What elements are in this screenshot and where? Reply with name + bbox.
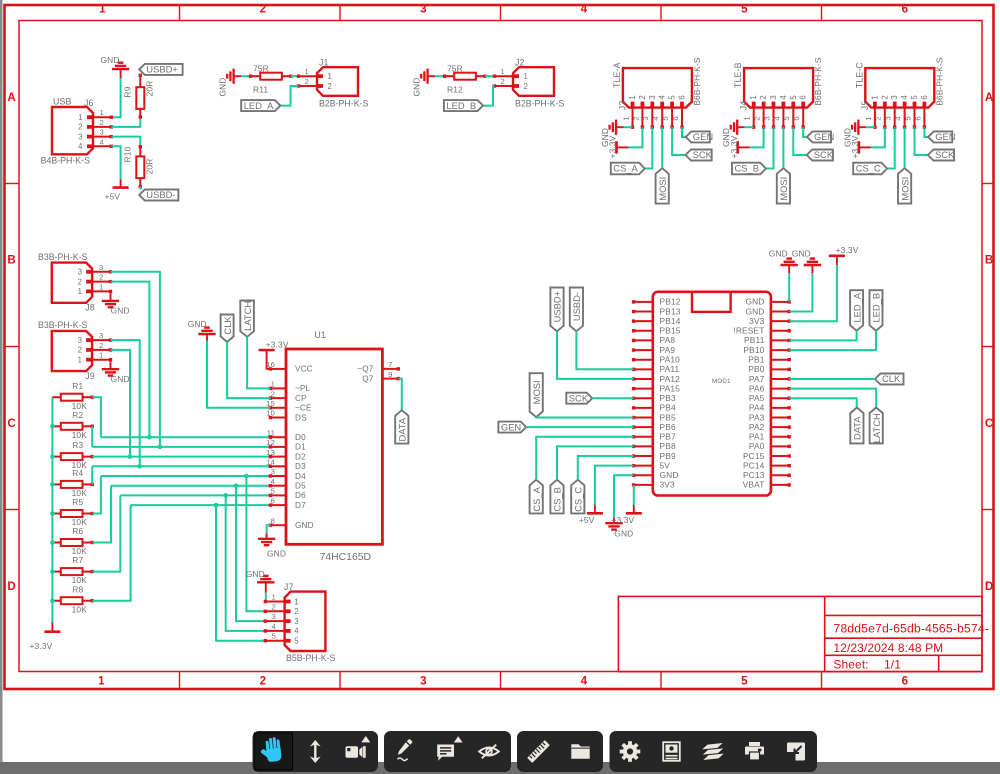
svg-text:6: 6 xyxy=(678,95,687,99)
wire R6 to D5 xyxy=(92,486,111,543)
canvas grey left edge xyxy=(0,0,3,762)
svg-text:10K: 10K xyxy=(72,430,88,440)
+3.3V bus wire xyxy=(51,397,53,622)
net label SCK (J3) xyxy=(686,150,712,161)
junction R2 bus xyxy=(50,424,55,429)
net label USBD- xyxy=(139,190,178,201)
svg-text:VBAT: VBAT xyxy=(743,480,765,490)
wire PA5 to DATA xyxy=(789,398,857,407)
MOD1 left pin PB3 xyxy=(634,397,653,399)
toolbar icon board setup xyxy=(663,742,680,761)
svg-text:6: 6 xyxy=(799,95,808,99)
svg-text:4: 4 xyxy=(651,116,660,121)
wire R12 to J2 pin1 xyxy=(485,75,495,77)
MOD1 right pin !RESET xyxy=(771,330,789,332)
svg-text:1: 1 xyxy=(870,95,879,99)
svg-text:SCK: SCK xyxy=(814,149,834,160)
J5 pin 2 xyxy=(884,108,886,128)
wire GND to J3 pin1 xyxy=(624,126,633,128)
svg-text:LED_A: LED_A xyxy=(244,100,274,111)
junction J8p3/D1 xyxy=(158,445,163,450)
J8 pin 2 xyxy=(92,281,110,283)
connector J9 xyxy=(52,331,92,371)
MOD1 right pin PC15 xyxy=(771,455,789,457)
wire J4 pin4 to MOSI xyxy=(782,127,784,168)
svg-text:5: 5 xyxy=(661,116,670,120)
wire CS_A to PB7 xyxy=(536,437,633,480)
svg-text:R1: R1 xyxy=(72,381,83,391)
svg-text:PB1: PB1 xyxy=(748,354,764,364)
J4 pin 6 xyxy=(802,108,804,128)
svg-text:SCK: SCK xyxy=(693,149,713,160)
J5 pin 4 xyxy=(904,108,906,128)
svg-text:CS_A: CS_A xyxy=(613,163,638,174)
svg-text:CLK: CLK xyxy=(222,316,233,335)
svg-text:A: A xyxy=(7,92,15,104)
net label USBD+ xyxy=(139,64,182,75)
toolbar group measure/files xyxy=(517,731,603,772)
MOD1 right pin PB10 xyxy=(771,349,789,351)
svg-text:7: 7 xyxy=(388,360,392,369)
svg-text:1: 1 xyxy=(501,67,505,76)
svg-text:Sheet:: Sheet: xyxy=(833,657,868,671)
svg-text:3: 3 xyxy=(272,612,276,621)
svg-text:!RESET: !RESET xyxy=(733,326,764,336)
svg-text:J2: J2 xyxy=(515,57,525,67)
svg-text:PB15: PB15 xyxy=(660,326,681,336)
svg-text:LED_A: LED_A xyxy=(851,292,862,322)
junction R6 bus xyxy=(50,540,55,545)
svg-text:1: 1 xyxy=(749,95,758,99)
MOD1 left pin PA11 xyxy=(634,368,653,370)
svg-text:4: 4 xyxy=(900,95,909,100)
svg-text:1: 1 xyxy=(98,676,105,688)
svg-text:2: 2 xyxy=(880,95,889,99)
svg-text:75R: 75R xyxy=(253,64,269,74)
junction J9p3/D3 xyxy=(137,464,142,469)
svg-text:4: 4 xyxy=(100,137,105,146)
power +5V (USB) xyxy=(120,179,122,187)
svg-text:1: 1 xyxy=(99,282,103,291)
toolbar group pan/zoom xyxy=(253,731,379,772)
svg-text:CS_A: CS_A xyxy=(531,486,542,511)
svg-text:11: 11 xyxy=(267,428,275,437)
svg-text:C: C xyxy=(7,418,15,430)
J3 pin 1 xyxy=(632,108,634,128)
wire MOSI to PB5 xyxy=(536,416,633,418)
svg-text:5: 5 xyxy=(789,95,798,100)
svg-text:R10: R10 xyxy=(122,146,132,162)
svg-text:5V: 5V xyxy=(660,460,671,470)
wire GND to J4 pin1 xyxy=(745,126,754,128)
U1 pin 3 D4 xyxy=(270,475,286,477)
connector J7 xyxy=(285,592,326,651)
wire GND1 to MOD1 GND xyxy=(788,273,790,302)
U1 pin 7 ~Q7 xyxy=(382,368,398,370)
wire D2 xyxy=(92,456,270,458)
wire J9 pin2 to D2 xyxy=(111,350,131,457)
wire +3.3V to MOD1 3V3 xyxy=(789,265,837,321)
svg-text:Q7: Q7 xyxy=(362,374,374,383)
MOD1 right pin PA4 xyxy=(771,407,789,409)
ground symbol (J1) xyxy=(232,69,234,84)
wire D5 xyxy=(111,485,270,487)
ground symbol (J9) xyxy=(102,368,119,370)
svg-text:1: 1 xyxy=(99,351,103,360)
U1 pin 6 D7 xyxy=(270,504,286,506)
svg-text:9: 9 xyxy=(388,370,392,379)
svg-text:4: 4 xyxy=(581,4,588,16)
wire J5 pin3 to CS_C xyxy=(887,127,895,168)
svg-text:R12: R12 xyxy=(447,85,463,95)
ground symbol (MOD1 right 1) xyxy=(781,264,798,266)
svg-text:TLE-B: TLE-B xyxy=(733,62,743,88)
wire J8 pin1 to GND xyxy=(110,291,112,301)
svg-text:LATCH: LATCH xyxy=(242,301,253,331)
svg-text:6: 6 xyxy=(902,4,908,16)
svg-text:CLK: CLK xyxy=(882,373,901,384)
svg-text:PA2: PA2 xyxy=(749,422,765,432)
J4 pin 4 xyxy=(782,108,784,128)
svg-text:J7: J7 xyxy=(284,582,294,592)
svg-text:3: 3 xyxy=(78,336,82,345)
svg-text:GND: GND xyxy=(111,306,130,316)
svg-text:1: 1 xyxy=(305,67,309,76)
svg-text:12: 12 xyxy=(266,438,275,447)
svg-text:4: 4 xyxy=(894,116,903,121)
junction R7 bus xyxy=(50,569,55,574)
svg-text:PA7: PA7 xyxy=(749,374,765,384)
svg-text:6: 6 xyxy=(920,95,929,99)
U1 pin 10 DS xyxy=(270,417,286,419)
J3 pin 5 xyxy=(671,108,673,128)
svg-text:D2: D2 xyxy=(295,452,306,461)
net label CS_C (MOD1) xyxy=(571,480,584,514)
svg-text:2: 2 xyxy=(99,341,103,350)
svg-text:J1: J1 xyxy=(319,57,329,67)
junction D6/J7 xyxy=(223,493,228,498)
MOD1 right pin PA7 xyxy=(771,378,789,380)
wire GND pin to ground (MOD1) xyxy=(614,475,634,517)
svg-text:USBD-: USBD- xyxy=(146,189,175,200)
svg-text:+3.3V: +3.3V xyxy=(729,135,739,158)
svg-text:2: 2 xyxy=(271,389,275,398)
J4 pin 3 xyxy=(773,108,775,128)
svg-text:PA6: PA6 xyxy=(749,383,765,393)
svg-text:R11: R11 xyxy=(253,85,268,95)
net label GEN (J3) xyxy=(686,131,710,142)
svg-text:3: 3 xyxy=(641,116,650,120)
J4 pin 2 xyxy=(763,108,765,128)
junction R8 bus xyxy=(50,598,55,603)
svg-text:MOSI: MOSI xyxy=(778,177,789,201)
J4 pin 1 xyxy=(753,108,755,128)
svg-text:6: 6 xyxy=(902,676,908,688)
J4 pin 5 xyxy=(792,108,794,128)
svg-text:B: B xyxy=(985,255,993,267)
svg-text:TLE-A: TLE-A xyxy=(612,62,622,88)
wire R1 to D0 xyxy=(92,397,101,437)
power +5V (MOD1) xyxy=(594,505,596,513)
wire +3.3V to J5 pin2 xyxy=(871,127,885,147)
svg-text:2: 2 xyxy=(631,116,640,120)
net label DATA (U1) xyxy=(395,410,408,443)
svg-text:VCC: VCC xyxy=(295,365,313,374)
svg-text:14: 14 xyxy=(266,458,275,467)
ground symbol (J3) xyxy=(615,120,617,135)
resistor R4 10K xyxy=(52,483,60,485)
J9 pin 3 xyxy=(92,339,110,341)
svg-text:USB: USB xyxy=(53,96,72,106)
svg-text:LATCH: LATCH xyxy=(871,413,882,443)
svg-text:PB6: PB6 xyxy=(660,422,676,432)
J1 pin 2 xyxy=(299,85,318,87)
svg-text:GEN: GEN xyxy=(693,131,713,142)
svg-text:5: 5 xyxy=(272,632,276,641)
svg-text:USBD+: USBD+ xyxy=(552,290,563,322)
svg-text:SCK: SCK xyxy=(935,149,955,160)
J8 pin 1 xyxy=(92,290,110,292)
svg-text:PC15: PC15 xyxy=(743,451,765,461)
toolbar icon layers xyxy=(702,743,724,760)
wire J3 pin3 to CS_A xyxy=(645,127,653,168)
wire J5 pin5 to SCK xyxy=(915,127,928,155)
resistor R6 10K xyxy=(52,542,60,544)
svg-text:GND: GND xyxy=(295,521,314,530)
wire GND to R11 xyxy=(241,75,250,77)
svg-text:GND: GND xyxy=(614,529,633,539)
svg-text:PB4: PB4 xyxy=(660,403,676,413)
U1 pin 16 VCC xyxy=(270,368,286,370)
svg-text:2: 2 xyxy=(638,95,647,99)
svg-text:4: 4 xyxy=(779,95,788,100)
J3 pin 3 xyxy=(651,108,653,128)
svg-text:MOD1: MOD1 xyxy=(712,378,731,385)
toolbar icon signature pencil xyxy=(398,739,413,761)
wire J5 pin4 to MOSI xyxy=(904,127,906,168)
svg-text:R6: R6 xyxy=(72,526,83,536)
wire J4 pin3 to CS_B xyxy=(766,127,774,168)
wire USBD+ to PA12 xyxy=(557,331,634,379)
svg-text:4: 4 xyxy=(658,95,667,100)
net label DATA (MOD1) xyxy=(850,408,863,444)
svg-text:MOSI: MOSI xyxy=(899,177,910,201)
svg-text:CS_C: CS_C xyxy=(856,163,881,174)
J3 pin 4 xyxy=(661,108,663,128)
svg-text:3V3: 3V3 xyxy=(660,480,676,490)
svg-text:PB12: PB12 xyxy=(660,297,681,307)
svg-text:J6: J6 xyxy=(84,98,94,108)
wire CS_B to PB8 xyxy=(557,446,634,479)
svg-text:1: 1 xyxy=(743,116,752,120)
net label CS_A (MOD1) xyxy=(530,480,543,514)
net label USBD+ (MOD1) xyxy=(550,288,563,332)
connector J2 xyxy=(513,67,554,96)
svg-text:2: 2 xyxy=(874,116,883,120)
svg-text:4: 4 xyxy=(581,676,588,688)
J7 pin 3 xyxy=(265,620,284,622)
svg-text:2: 2 xyxy=(78,277,82,286)
svg-text:DATA: DATA xyxy=(397,417,408,441)
svg-text:DS: DS xyxy=(295,413,307,422)
wire GEN to PB6 xyxy=(526,426,633,428)
svg-text:5: 5 xyxy=(668,95,677,100)
svg-text:R3: R3 xyxy=(72,440,83,450)
svg-text:2: 2 xyxy=(501,77,505,86)
svg-text:2: 2 xyxy=(260,4,266,16)
svg-text:J8: J8 xyxy=(85,303,95,313)
svg-text:2: 2 xyxy=(328,82,332,91)
ground symbol (J4) xyxy=(736,120,738,135)
wire LED_A to PB11 xyxy=(789,331,856,341)
svg-text:J4: J4 xyxy=(739,101,749,111)
resistor R9 xyxy=(139,75,141,87)
resistor R10 xyxy=(139,147,141,157)
J1 pin 1 xyxy=(299,75,318,77)
svg-text:3: 3 xyxy=(78,268,82,277)
svg-text:3: 3 xyxy=(769,95,778,99)
svg-text:3: 3 xyxy=(99,331,103,340)
svg-text:2: 2 xyxy=(78,123,82,132)
J5 pin 6 xyxy=(923,108,925,128)
net label LED_B (MOD1) xyxy=(870,290,883,331)
svg-text:2: 2 xyxy=(78,346,82,355)
svg-text:GND: GND xyxy=(411,77,421,96)
svg-text:8: 8 xyxy=(271,516,275,525)
svg-text:2: 2 xyxy=(260,676,266,688)
junction R5 bus xyxy=(50,511,55,516)
MOD1 left pin PB4 xyxy=(634,407,653,409)
svg-text:1: 1 xyxy=(864,116,873,120)
svg-text:GEN: GEN xyxy=(935,131,955,142)
J5 pin 3 xyxy=(894,108,896,128)
net label MOSI (J5) xyxy=(898,168,911,203)
net label GEN (J4) xyxy=(807,131,831,142)
svg-text:+3.3V: +3.3V xyxy=(608,135,618,158)
wire +3.3V to J4 pin2 xyxy=(750,127,764,147)
svg-text:6: 6 xyxy=(671,116,680,120)
svg-text:B4B-PH-K-S: B4B-PH-K-S xyxy=(41,155,91,165)
MOD1 right pin PC13 xyxy=(771,474,789,476)
J6 pin 2 xyxy=(93,126,111,128)
resistor R1 10K xyxy=(52,396,60,398)
wire +3.3V to J3 pin2 xyxy=(629,127,643,147)
svg-text:D: D xyxy=(7,581,15,593)
svg-text:SCK: SCK xyxy=(569,392,589,403)
svg-text:4: 4 xyxy=(294,627,299,636)
wire D5 to J7 pin3 xyxy=(236,486,265,621)
svg-text:D5: D5 xyxy=(295,482,306,491)
resistor R8 10K xyxy=(52,600,60,602)
svg-text:R5: R5 xyxy=(72,497,83,507)
svg-text:5: 5 xyxy=(271,487,275,496)
U1 pin 8 GND xyxy=(270,524,286,526)
svg-text:PA15: PA15 xyxy=(660,383,681,393)
J9 pin 1 xyxy=(92,359,110,361)
J8 pin 3 xyxy=(92,271,110,273)
title block divider xyxy=(824,596,826,671)
svg-text:1/1: 1/1 xyxy=(884,657,901,671)
svg-text:PB5: PB5 xyxy=(660,412,676,422)
svg-text:B2B-PH-K-S: B2B-PH-K-S xyxy=(319,99,369,109)
svg-text:+3.3V: +3.3V xyxy=(611,515,634,525)
svg-text:PA0: PA0 xyxy=(749,441,765,451)
svg-text:CS_C: CS_C xyxy=(573,487,584,512)
junction D4/J7 xyxy=(244,474,249,479)
svg-text:20R: 20R xyxy=(144,159,154,175)
svg-text:1: 1 xyxy=(78,356,82,365)
wire USBD- to PA11 xyxy=(576,331,633,369)
wire J9 pin3 to D3 xyxy=(111,340,140,466)
net label USBD- (MOD1) xyxy=(570,288,583,332)
svg-text:USBD+: USBD+ xyxy=(146,64,178,75)
wire D4 to J7 pin2 xyxy=(246,476,265,611)
MOD1 right pin PB11 xyxy=(771,339,789,341)
ground symbol (MOD1 bottom) xyxy=(613,518,615,524)
svg-text:PA10: PA10 xyxy=(660,354,681,364)
svg-text:+5V: +5V xyxy=(105,192,121,202)
power +3.3V (J3) xyxy=(615,141,618,153)
svg-text:GND: GND xyxy=(745,297,764,307)
svg-text:R4: R4 xyxy=(72,468,83,478)
svg-text:GND: GND xyxy=(745,306,764,316)
wire R8 to D7 xyxy=(92,505,130,601)
J2 pin 2 xyxy=(495,85,514,87)
wire J6 pin3 to R10 xyxy=(111,137,140,147)
svg-text:+3.3V: +3.3V xyxy=(266,340,289,350)
svg-text:USBD-: USBD- xyxy=(571,292,582,321)
net label CLK (MOD1) xyxy=(875,374,904,385)
MOD1 left pin PB14 xyxy=(634,320,653,322)
svg-text:5: 5 xyxy=(741,4,748,16)
resistor R2 10K xyxy=(52,425,60,427)
wire J1 pin2 to LED_A xyxy=(280,86,298,106)
svg-text:GND: GND xyxy=(267,548,286,558)
svg-text:~CE: ~CE xyxy=(295,404,312,413)
svg-text:1: 1 xyxy=(272,593,276,602)
svg-text:78dd5e7d-65db-4565-b574-: 78dd5e7d-65db-4565-b574- xyxy=(833,622,989,636)
toolbar icon camera xyxy=(346,736,371,758)
U1 pin 12 D1 xyxy=(270,446,286,448)
wire CLK to PA7 xyxy=(789,378,875,380)
svg-text:5: 5 xyxy=(294,637,299,646)
MOD1 right pin 3V3 xyxy=(771,320,789,322)
wire J8 pin2 to D0 xyxy=(111,282,150,438)
MOD1 left pin PB5 xyxy=(634,416,653,418)
frame row ticks xyxy=(5,183,20,185)
MOD1 right pin VBAT xyxy=(771,484,789,486)
wire J3 pin5 to SCK xyxy=(672,127,685,155)
svg-text:D0: D0 xyxy=(295,433,306,442)
J5 pin 5 xyxy=(914,108,916,128)
svg-text:GND: GND xyxy=(111,374,130,384)
J6 pin 3 xyxy=(93,136,111,138)
svg-text:GND: GND xyxy=(101,55,120,65)
MOD1 right pin PB1 xyxy=(771,359,789,361)
svg-text:R8: R8 xyxy=(72,584,83,594)
svg-text:3: 3 xyxy=(762,116,771,120)
svg-text:3: 3 xyxy=(890,95,899,99)
svg-text:D4: D4 xyxy=(295,472,306,481)
svg-text:GEN: GEN xyxy=(814,131,834,142)
J3 pin 2 xyxy=(641,108,643,128)
svg-text:DATA: DATA xyxy=(852,416,863,440)
wire GND to J6 pin1 xyxy=(111,78,120,117)
ground symbol (J5) xyxy=(857,120,859,135)
svg-text:2: 2 xyxy=(272,602,276,611)
wire R7 to D6 xyxy=(92,495,120,571)
svg-text:2: 2 xyxy=(753,116,762,120)
